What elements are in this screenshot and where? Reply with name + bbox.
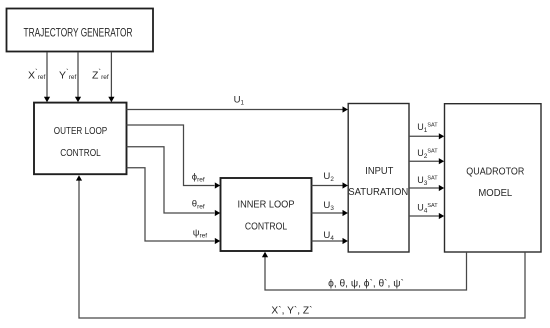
block OUTER LOOP CONTROL [34,103,127,175]
svg-text:CONTROL: CONTROL [60,148,101,159]
block QUADROTOR MODEL [445,104,542,252]
svg-text:U1: U1 [234,94,245,106]
wire Xref from trajectory generator to outer loop [44,52,50,102]
svg-text:U4SAT: U4SAT [417,203,438,215]
wire Zref from trajectory generator to outer loop [108,52,114,102]
svg-text:ϕref: ϕref [192,172,205,184]
svg-text:ψref: ψref [193,227,208,239]
wire U2SAT from input saturation to quadrotor model [409,158,444,164]
svg-text:U3: U3 [323,200,334,212]
wire U4 from inner loop to input saturation [312,238,348,244]
svg-text:U2: U2 [323,171,334,183]
wire psi_ref from outer loop to inner loop [127,168,221,244]
svg-text:U4: U4 [323,230,334,242]
wire angle feedback from quadrotor model to inner loop [262,252,467,290]
svg-text:U3SAT: U3SAT [417,175,438,187]
svg-text:SATURATION: SATURATION [348,187,408,198]
wire U3SAT from input saturation to quadrotor model [409,185,444,191]
wire position feedback from quadrotor model to outer loop [76,175,525,318]
wire theta_ref from outer loop to inner loop [127,147,221,216]
svg-text:ϕ, θ, ψ, ϕ`, θ`, ψ`: ϕ, θ, ψ, ϕ`, θ`, ψ` [328,278,404,290]
svg-text:θref: θref [192,199,205,211]
svg-text:CONTROL: CONTROL [245,222,288,233]
svg-text:QUADROTOR: QUADROTOR [466,167,524,178]
svg-text:OUTER LOOP: OUTER LOOP [54,126,108,137]
wire U1 from outer loop to input saturation [127,106,348,112]
svg-text:TRAJECTORY GENERATOR: TRAJECTORY GENERATOR [24,28,133,40]
wire Yref from trajectory generator to outer loop [75,52,81,102]
block TRAJECTORY GENERATOR [7,9,154,52]
block INNER LOOP CONTROL [221,178,312,251]
svg-text:Y`ref: Y`ref [59,68,76,82]
wire phi_ref from outer loop to inner loop [127,125,221,189]
svg-text:INNER LOOP: INNER LOOP [238,200,295,211]
svg-text:U1SAT: U1SAT [417,122,438,134]
wire U1SAT from input saturation to quadrotor model [409,133,444,139]
wire U3 from inner loop to input saturation [312,210,348,216]
svg-text:INPUT: INPUT [365,166,393,177]
svg-text:X`ref: X`ref [28,68,45,82]
svg-text:MODEL: MODEL [478,188,512,199]
block INPUT SATURATION [348,104,409,253]
svg-text:Z`ref: Z`ref [92,68,109,82]
svg-text:U2SAT: U2SAT [417,148,438,160]
svg-text:X`, Y`, Z`: X`, Y`, Z` [271,305,312,317]
wire U4SAT from input saturation to quadrotor model [409,213,444,219]
wire U2 from inner loop to input saturation [312,182,348,188]
